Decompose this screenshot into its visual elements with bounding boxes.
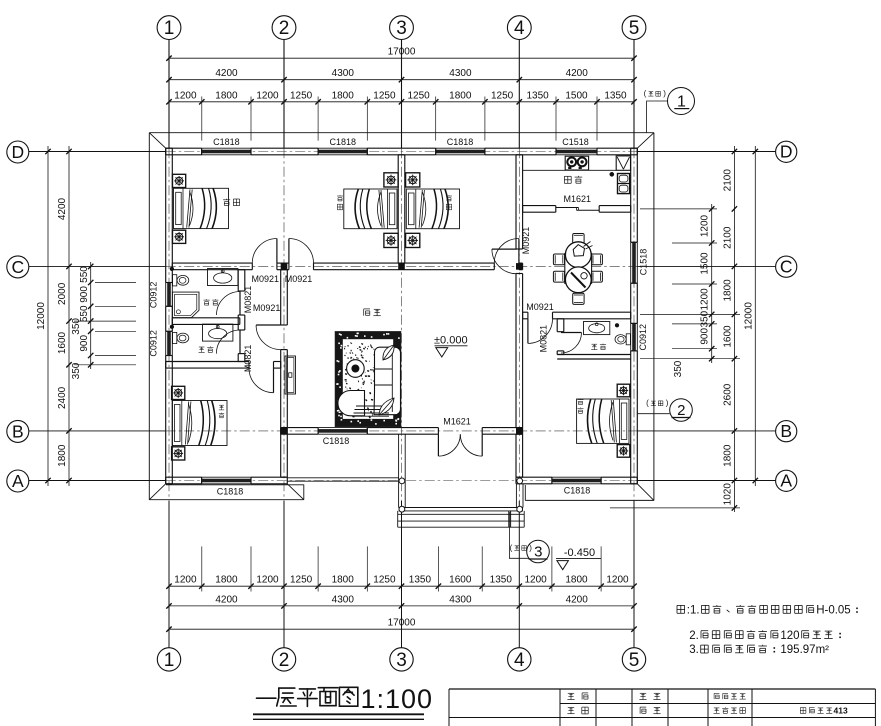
svg-text:(: ( [644,89,647,98]
svg-text:): ) [663,89,666,98]
svg-text:4300: 4300 [332,68,355,79]
svg-text:D: D [11,142,24,162]
svg-text:H-0.05: H-0.05 [816,605,851,617]
svg-text:1200: 1200 [700,214,711,237]
svg-text:5: 5 [629,650,640,671]
svg-text:1800: 1800 [449,90,472,101]
svg-text:1350: 1350 [490,575,513,586]
svg-text:1250: 1250 [290,90,313,101]
window C1818 living south [318,427,367,429]
svg-text:2: 2 [677,402,685,419]
dining table [565,254,592,284]
svg-text:1250: 1250 [373,90,396,101]
bath1 shower [172,292,199,318]
table row1 text [568,692,574,694]
svg-text:1020: 1020 [722,483,733,506]
bed bedroom1 [174,188,229,228]
step divider [508,511,510,527]
axis4 wall [515,155,517,249]
svg-text:2100: 2100 [722,169,733,192]
svg-text:M0821: M0821 [243,286,253,314]
table row2 text [568,707,574,709]
bath2R basin [584,322,610,335]
bedroom north wall [166,361,249,363]
svg-text:2000: 2000 [57,282,68,305]
svg-text:350: 350 [700,310,711,327]
porch left edge [398,434,400,507]
svg-text:2600: 2600 [722,383,733,406]
eave corner diagonals [149,133,165,149]
label bedroom1 (卧室) [223,199,230,201]
axis line 1 [168,40,170,149]
svg-text:1600: 1600 [449,575,472,586]
svg-text:4200: 4200 [57,197,68,220]
label bedroom bottom (老卧) [219,404,224,406]
door M0821 bath2 left [239,330,241,354]
sofa chaise [338,390,365,415]
svg-text:M0921: M0921 [521,227,531,255]
bath2L toilet [173,332,177,343]
svg-text:1250: 1250 [407,90,430,101]
sofa leaf bottom [379,398,394,415]
label living (客厅) [363,309,365,316]
svg-text:1200: 1200 [256,575,279,586]
structural columns [281,263,288,270]
label kitchen (厨房) [564,175,571,177]
bath1 toilet [173,275,177,286]
door M1621 kitchen sliding [556,207,579,209]
svg-text:1800: 1800 [565,575,588,586]
window C0912 east [630,323,632,351]
svg-text:): ) [529,543,532,552]
svg-text:4: 4 [514,650,525,671]
svg-text:1500: 1500 [565,90,588,101]
label master bedroom (主卧) [578,399,584,401]
svg-text:1350: 1350 [604,90,627,101]
window C0912 west-2 [165,331,167,355]
bath2R west wall [556,319,558,332]
svg-text:17000: 17000 [388,618,416,629]
svg-text:3.: 3. [689,644,699,656]
steps [398,513,525,515]
svg-text:12000: 12000 [36,302,47,330]
axis line 2 [283,40,285,149]
svg-text:120: 120 [780,630,799,642]
svg-text:1600: 1600 [57,331,68,354]
rug speckle field [357,369,360,370]
dim line 4200/4300 top [169,79,634,81]
svg-text:1250: 1250 [491,90,514,101]
svg-text:1200: 1200 [700,288,711,311]
svg-text:1:100: 1:100 [361,684,434,714]
svg-text:C1818: C1818 [447,137,474,147]
svg-text:C1818: C1818 [213,137,240,147]
axis row C [29,265,166,267]
svg-text:1800: 1800 [215,90,238,101]
door M0921 dining-master [527,319,529,344]
door M1621 main entrance [437,434,439,456]
svg-text:900: 900 [79,335,90,352]
label bath2R (次卫) [592,343,598,345]
axis row A [29,480,166,482]
window C1518 east [630,242,632,283]
svg-text:1800: 1800 [722,444,733,467]
axis bubbles bottom [157,648,180,671]
porch right edge below A [515,484,517,508]
bed bedroom2 [344,189,397,229]
svg-text:1200: 1200 [256,90,279,101]
notes text [677,604,685,606]
svg-text:A: A [780,471,792,491]
svg-text:C1518: C1518 [562,137,589,147]
svg-text:): ) [666,399,669,408]
title block table [449,688,875,690]
door M0921 bedroom2 [288,239,290,264]
axis line 5 [633,40,635,149]
axis line 3 [401,40,403,149]
row A wall master wing [516,476,552,478]
door M0921 bedroom1 [276,239,278,264]
sofa footrest [356,405,389,407]
porch slab bottom [399,507,523,509]
svg-text:1250: 1250 [290,575,313,586]
axis3 wall [397,155,399,263]
svg-text:M0921: M0921 [526,302,554,312]
door M0921 living-dining [492,248,517,250]
svg-text:1800: 1800 [722,279,733,302]
svg-text:413: 413 [834,706,848,716]
axis line 4 [518,40,520,149]
svg-text:M0821: M0821 [539,325,549,353]
bath2R toilet [626,334,630,345]
dining south wall [523,311,528,313]
door M0921 bedroom bottom [273,368,275,393]
svg-text:C: C [780,257,793,277]
bath2L basin [203,324,233,341]
svg-text:-0.450: -0.450 [564,547,595,559]
window C1818 top-2 [318,147,367,149]
svg-text:1800: 1800 [332,575,355,586]
svg-text:1800: 1800 [215,575,238,586]
living round table [347,360,365,378]
svg-text:D: D [780,142,793,162]
door M0921 bedroom3 [518,239,520,264]
svg-text:2.: 2. [689,630,699,642]
title (一层平面图 1:100) [257,697,276,699]
svg-text:350: 350 [673,360,684,377]
nightstands bedroom1 [173,174,186,187]
detail bubble 3 [509,512,528,558]
svg-text:M0921: M0921 [252,274,280,284]
table setting top [565,242,591,268]
axis row D [29,151,166,153]
door M0921 hall-living [256,324,281,326]
porch columns [399,478,405,484]
svg-text:M1621: M1621 [564,194,592,204]
door M0821 bath2 right [561,332,582,334]
svg-text:C1818: C1818 [323,436,350,446]
window C0912 west-1 [165,283,167,307]
svg-text:M0821: M0821 [243,345,253,373]
svg-text:(: ( [510,543,513,552]
window C1818 top-3 [436,147,485,149]
axis bubbles left [7,141,29,163]
kitchen fridge [618,174,630,194]
kitchen corner sink [616,156,630,170]
svg-text:4300: 4300 [449,68,472,79]
svg-text::1.: :1. [687,605,700,617]
svg-text:1200: 1200 [174,90,197,101]
bath divider wall [172,317,240,319]
dim line 4200/4300 bottom [169,605,634,607]
window C1818 top-1 [202,147,251,149]
svg-text:C: C [11,257,24,277]
svg-text:M0921: M0921 [285,274,313,284]
svg-text:(: ( [646,399,649,408]
living sofa [374,347,401,415]
svg-text:900: 900 [79,286,90,303]
hall cabinet [285,356,296,394]
svg-text:195.97m²: 195.97m² [780,644,829,656]
svg-text:C0912: C0912 [149,282,159,309]
dining chairs [553,254,564,265]
svg-text:350: 350 [71,318,82,335]
svg-text:C1818: C1818 [564,486,591,496]
svg-text:±0.000: ±0.000 [434,335,468,347]
svg-text:1: 1 [677,94,686,111]
row C wall [172,262,252,264]
svg-text:17000: 17000 [388,47,416,58]
dim line 17000 bottom [169,628,634,630]
eave outline [149,132,654,134]
svg-text:1250: 1250 [373,575,396,586]
svg-text:A: A [12,471,24,491]
axis bubbles top [157,16,181,40]
bed bedroom bottom [172,401,227,446]
svg-text:4200: 4200 [566,68,589,79]
kitchen counter [523,169,617,171]
dim chain small top [169,101,634,103]
detail bubble 1 [647,101,668,133]
nightstands bedroom2 [384,173,398,187]
svg-text:C0912: C0912 [638,324,648,351]
svg-text:B: B [780,421,792,441]
dim line 17000 top [169,57,634,59]
bath2R south wall [557,354,631,356]
kitchen dot [610,172,614,176]
row A wall left wing [166,476,202,478]
svg-text:1: 1 [164,18,175,39]
kitchen south wall [523,205,556,207]
svg-text:1800: 1800 [57,444,68,467]
svg-text:550: 550 [79,266,90,283]
svg-text:4200: 4200 [215,68,238,79]
svg-text:1500: 1500 [700,252,711,275]
svg-text:5: 5 [629,18,640,39]
svg-text:4300: 4300 [332,594,355,605]
window C1818 bedroom south [202,476,251,478]
svg-text:12000: 12000 [743,302,754,330]
svg-text:1: 1 [164,650,175,671]
svg-text:3: 3 [396,650,407,671]
nightstands bedroom bottom [172,386,185,399]
window C1818 master south [552,476,601,478]
west wall [165,148,167,282]
row B wall [281,427,318,429]
axis bubbles right [776,141,797,162]
svg-text:4200: 4200 [566,594,589,605]
nightstands bedroom3 [406,173,420,187]
svg-text:C0912: C0912 [149,330,159,357]
baths east wall [237,270,239,291]
svg-text:3: 3 [396,18,407,39]
label bedroom2 (卧室) [337,195,343,197]
svg-text:C1818: C1818 [217,487,244,497]
svg-text:900: 900 [700,328,711,345]
axis2 wall [280,270,282,325]
svg-text:2: 2 [279,650,290,671]
svg-text:C1818: C1818 [330,137,357,147]
svg-text:2: 2 [279,18,290,39]
svg-text:4200: 4200 [215,594,238,605]
svg-text:4: 4 [514,18,525,39]
svg-text:2400: 2400 [57,386,68,409]
svg-text:C1518: C1518 [638,249,648,276]
bath1 basin [208,269,238,286]
svg-text:4300: 4300 [449,594,472,605]
terrace south edge lines [287,477,398,479]
door M0821 bath1 [239,292,241,316]
sofa leaf top [383,345,394,360]
svg-text:M1621: M1621 [443,417,471,427]
svg-text:B: B [12,421,24,441]
nightstands master [617,384,630,397]
svg-text:1200: 1200 [606,575,629,586]
right dim chains [711,204,713,363]
dim chain small bottom [169,585,634,587]
east wall [630,148,632,242]
axis row B [29,430,166,432]
svg-text:1350: 1350 [526,90,549,101]
svg-text:1200: 1200 [174,575,197,586]
svg-text:1350: 1350 [409,575,432,586]
bed master [577,399,629,443]
label bath2L (次卫) [199,346,205,348]
svg-text:1800: 1800 [332,90,355,101]
table setting bottom [565,267,591,293]
detail bubble 2 [637,413,670,415]
left dim chains [47,146,49,486]
svg-text:2100: 2100 [722,226,733,249]
label bedroom3 (卧室) [446,195,452,197]
north wall [166,147,202,149]
master west wall [515,434,517,477]
label bath1 (主卫) [204,299,210,301]
svg-text:M0921: M0921 [253,303,281,313]
living rug [335,332,400,427]
window C1518 kitchen [556,147,597,149]
svg-text:1200: 1200 [524,575,547,586]
svg-text:3: 3 [534,543,542,560]
svg-text:1600: 1600 [722,325,733,348]
kitchen stove [565,156,588,170]
bed bedroom3 [406,189,459,229]
